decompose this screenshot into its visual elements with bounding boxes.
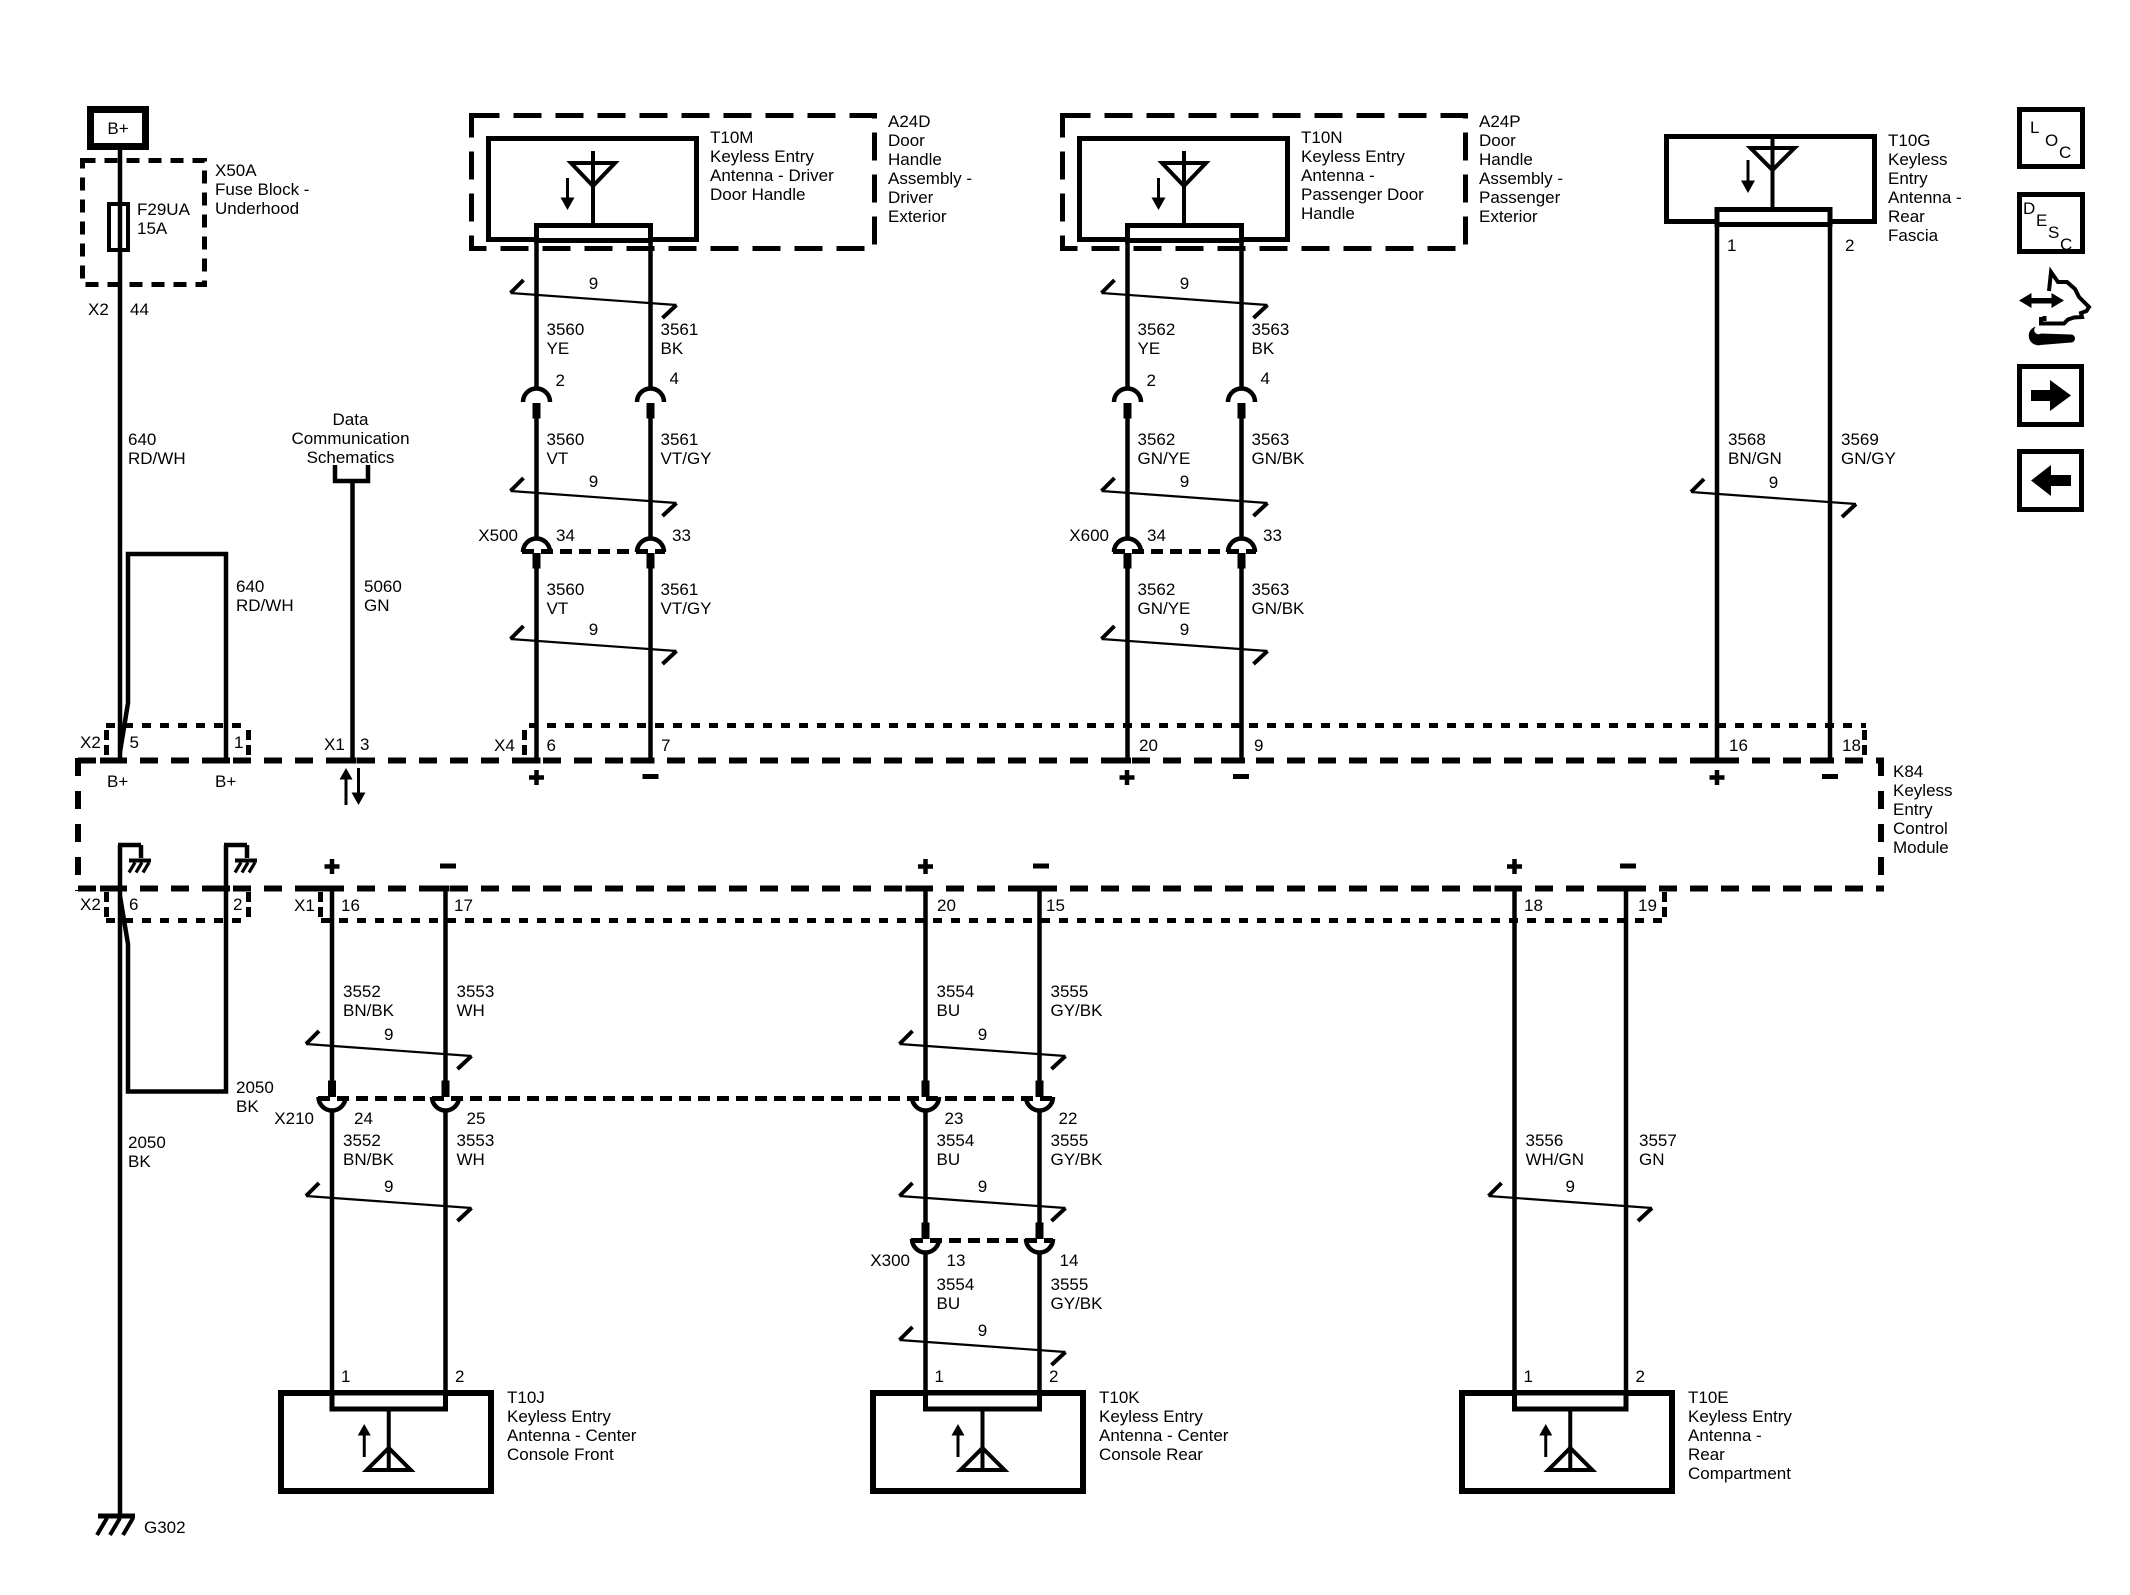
svg-text:Entry: Entry bbox=[1888, 169, 1928, 188]
power symbol B+ (battery feed) bbox=[91, 110, 146, 147]
svg-text:Rear: Rear bbox=[1888, 207, 1925, 226]
connector box of T10M bbox=[537, 226, 651, 241]
svg-text:18: 18 bbox=[1524, 896, 1543, 915]
label 3568 BN/GN bbox=[1728, 430, 1782, 468]
door handle assembly A24D (dashed box) bbox=[472, 116, 875, 249]
svg-text:3553: 3553 bbox=[457, 1131, 495, 1150]
svg-text:Handle: Handle bbox=[1479, 150, 1533, 169]
label 3560 YE bbox=[547, 320, 585, 358]
module K84 Keyless Entry Control Module (dashed box) bbox=[78, 758, 1884, 891]
svg-text:Door: Door bbox=[888, 131, 925, 150]
pin 2 label of T10K bbox=[1049, 1367, 1058, 1386]
twisted pair symbol 9 (middle) bbox=[1102, 472, 1268, 516]
twisted pair symbol 9 (rear compartment) bbox=[1489, 1177, 1653, 1221]
label 3555 GY/BK bbox=[1051, 982, 1104, 1020]
antenna symbol T10N bbox=[1152, 151, 1207, 223]
svg-text:Keyless: Keyless bbox=[1893, 781, 1953, 800]
svg-text:Passenger Door: Passenger Door bbox=[1301, 185, 1424, 204]
svg-text:B+: B+ bbox=[107, 119, 128, 138]
connector box of T10K bbox=[926, 1393, 1040, 1409]
svg-text:X2: X2 bbox=[80, 733, 101, 752]
svg-text:GN/GY: GN/GY bbox=[1841, 449, 1896, 468]
svg-text:BN/GN: BN/GN bbox=[1728, 449, 1782, 468]
svg-text:15: 15 bbox=[1046, 896, 1065, 915]
connector X210 pin 24 bbox=[274, 1081, 373, 1129]
svg-text:X1: X1 bbox=[324, 735, 345, 754]
pin 2 of X2 (ground) bbox=[206, 886, 242, 915]
svg-text:9: 9 bbox=[1769, 473, 1778, 492]
svg-text:3561: 3561 bbox=[661, 320, 699, 339]
svg-text:Keyless Entry: Keyless Entry bbox=[507, 1407, 611, 1426]
svg-text:Assembly -: Assembly - bbox=[888, 169, 972, 188]
label 3554 BU (lower) bbox=[937, 1275, 975, 1313]
label 3569 GN/GY bbox=[1841, 430, 1896, 468]
svg-text:3561: 3561 bbox=[661, 430, 699, 449]
icon door removal (double arrow + door outline) bbox=[2019, 272, 2089, 324]
svg-text:3562: 3562 bbox=[1138, 320, 1176, 339]
label T10M bbox=[710, 128, 834, 204]
svg-text:640: 640 bbox=[128, 430, 156, 449]
svg-text:VT/GY: VT/GY bbox=[661, 449, 712, 468]
svg-text:3555: 3555 bbox=[1051, 1275, 1089, 1294]
svg-text:9: 9 bbox=[384, 1177, 393, 1196]
pin 1 label of T10E bbox=[1524, 1367, 1533, 1386]
wire 3562 GN/YE (to X600) bbox=[1125, 417, 1130, 539]
wire 640 from B+ into fuse block bbox=[118, 150, 123, 204]
svg-text:S: S bbox=[2048, 223, 2059, 242]
svg-text:9: 9 bbox=[978, 1321, 987, 1340]
svg-text:GN/YE: GN/YE bbox=[1138, 449, 1191, 468]
label T10G bbox=[1888, 131, 1962, 245]
svg-text:F29UA: F29UA bbox=[137, 200, 191, 219]
svg-text:Underhood: Underhood bbox=[215, 199, 299, 218]
connector box of T10N bbox=[1128, 226, 1242, 241]
pin 9 of X4 bbox=[1221, 736, 1263, 764]
wire 3563 BK (pin to inline connector) bbox=[1239, 243, 1244, 389]
connector box of T10G bbox=[1717, 210, 1830, 225]
svg-text:3568: 3568 bbox=[1728, 430, 1766, 449]
svg-text:Fascia: Fascia bbox=[1888, 226, 1939, 245]
connector X300 pin 13 bbox=[870, 1223, 965, 1271]
internal ground at X2 pin 6 bbox=[118, 845, 151, 888]
label T10E bbox=[1688, 1388, 1792, 1483]
pin 20 of X4 bbox=[1107, 736, 1158, 764]
svg-text:7: 7 bbox=[661, 736, 670, 755]
wire 3554 BU (K84 X1-20 to X210) bbox=[923, 886, 928, 1081]
svg-text:GN: GN bbox=[1639, 1150, 1665, 1169]
svg-text:VT: VT bbox=[547, 449, 569, 468]
svg-text:34: 34 bbox=[1147, 526, 1166, 545]
antenna symbol T10J bbox=[358, 1411, 411, 1470]
svg-text:C: C bbox=[2059, 143, 2071, 162]
svg-text:Module: Module bbox=[1893, 838, 1949, 857]
icon DESC button bbox=[2020, 195, 2083, 255]
svg-text:BN/BK: BN/BK bbox=[343, 1150, 395, 1169]
twisted pair symbol 9 (console front, lower) bbox=[306, 1177, 472, 1221]
svg-text:BK: BK bbox=[661, 339, 684, 358]
pin 17 of X1 bbox=[426, 886, 473, 916]
svg-text:9: 9 bbox=[589, 472, 598, 491]
svg-text:3560: 3560 bbox=[547, 430, 585, 449]
svg-text:Compartment: Compartment bbox=[1688, 1464, 1791, 1483]
svg-text:Door Handle: Door Handle bbox=[710, 185, 805, 204]
label B+ (pin 5) bbox=[107, 772, 128, 791]
svg-text:2: 2 bbox=[1147, 371, 1156, 390]
antenna T10N box bbox=[1080, 139, 1288, 240]
connector box of T10E bbox=[1515, 1393, 1627, 1409]
svg-text:25: 25 bbox=[467, 1109, 486, 1128]
svg-text:9: 9 bbox=[1180, 620, 1189, 639]
svg-text:Passenger: Passenger bbox=[1479, 188, 1561, 207]
svg-text:Keyless: Keyless bbox=[1888, 150, 1948, 169]
svg-text:2: 2 bbox=[1636, 1367, 1645, 1386]
label 3555 GY/BK (middle) bbox=[1051, 1131, 1104, 1169]
antenna T10G box bbox=[1667, 137, 1875, 222]
svg-text:33: 33 bbox=[1263, 526, 1282, 545]
pin 6 of X2 (ground) bbox=[100, 886, 138, 915]
pin 16 of X4 bbox=[1697, 736, 1748, 764]
svg-text:13: 13 bbox=[947, 1251, 966, 1270]
twisted pair symbol 9 (upper) bbox=[511, 274, 677, 318]
svg-text:X300: X300 bbox=[870, 1251, 910, 1270]
wire 3569 GN/GY (T10G to K84) bbox=[1828, 227, 1833, 758]
svg-text:3563: 3563 bbox=[1252, 320, 1290, 339]
polarity marks X1 pins 16/17 bbox=[325, 859, 457, 874]
icon wrench bbox=[2029, 327, 2075, 346]
pin 18 of X1 bbox=[1495, 886, 1543, 916]
pin 2 label of T10J bbox=[455, 1367, 464, 1386]
svg-text:9: 9 bbox=[1566, 1177, 1575, 1196]
serial data arrows (bi-directional) bbox=[340, 768, 366, 805]
svg-text:GY/BK: GY/BK bbox=[1051, 1150, 1104, 1169]
label 3554 BU (middle) bbox=[937, 1131, 975, 1169]
svg-text:BK: BK bbox=[128, 1152, 151, 1171]
wire 3561 VT/GY (to X500) bbox=[648, 417, 653, 539]
label 3563 GN/BK bbox=[1252, 430, 1306, 468]
svg-text:3552: 3552 bbox=[343, 982, 381, 1001]
connector box of T10J bbox=[332, 1393, 446, 1409]
svg-text:BK: BK bbox=[1252, 339, 1275, 358]
svg-text:BN/BK: BN/BK bbox=[343, 1001, 395, 1020]
label A24P bbox=[1479, 112, 1563, 226]
pin 7 of X4 bbox=[631, 736, 671, 764]
svg-text:X2: X2 bbox=[80, 895, 101, 914]
door handle assembly A24P (dashed box) bbox=[1063, 116, 1466, 249]
svg-text:4: 4 bbox=[670, 369, 679, 388]
svg-text:9: 9 bbox=[978, 1025, 987, 1044]
svg-text:Entry: Entry bbox=[1893, 800, 1933, 819]
svg-text:X2: X2 bbox=[88, 300, 109, 319]
svg-text:16: 16 bbox=[1729, 736, 1748, 755]
label 3553 WH bbox=[457, 982, 495, 1020]
twisted pair symbol 9 (middle) bbox=[511, 472, 677, 516]
antenna symbol T10E bbox=[1539, 1411, 1592, 1470]
connector X210 pin 22 bbox=[1026, 1081, 1077, 1129]
svg-text:Antenna - Driver: Antenna - Driver bbox=[710, 166, 834, 185]
wire 3553 WH (X210 to T10J) bbox=[443, 1111, 448, 1392]
antenna symbol T10K bbox=[952, 1411, 1005, 1470]
label 3562 GN/YE (lower) bbox=[1138, 580, 1191, 618]
svg-text:T10M: T10M bbox=[710, 128, 753, 147]
connector X1 pin 3 (serial data) bbox=[324, 735, 369, 764]
antenna T10M box bbox=[489, 139, 697, 240]
label 3561 VT/GY bbox=[661, 430, 712, 468]
svg-text:Exterior: Exterior bbox=[888, 207, 947, 226]
svg-text:Exterior: Exterior bbox=[1479, 207, 1538, 226]
svg-text:640: 640 bbox=[236, 577, 264, 596]
connector X2 rail (bottom) bbox=[80, 892, 250, 921]
svg-text:Control: Control bbox=[1893, 819, 1948, 838]
twisted pair symbol 9 (lower) bbox=[511, 620, 677, 664]
label 3560 VT bbox=[547, 430, 585, 468]
svg-text:WH: WH bbox=[457, 1001, 485, 1020]
polarity marks X4 pins 6/7 bbox=[529, 770, 659, 785]
antenna T10E box bbox=[1462, 1393, 1672, 1491]
svg-text:20: 20 bbox=[937, 896, 956, 915]
svg-text:3560: 3560 bbox=[547, 320, 585, 339]
icon arrow right button bbox=[2020, 367, 2082, 425]
wire 640 RD/WH (fuse to K84 X2-5) bbox=[118, 250, 123, 758]
connector X4 rail (top) bbox=[494, 726, 1866, 758]
svg-text:Antenna -: Antenna - bbox=[1888, 188, 1962, 207]
connector X210 pin 25 bbox=[432, 1081, 485, 1129]
svg-text:9: 9 bbox=[589, 274, 598, 293]
twisted pair symbol 9 (console rear, middle) bbox=[900, 1177, 1066, 1221]
svg-text:2: 2 bbox=[1049, 1367, 1058, 1386]
svg-text:YE: YE bbox=[547, 339, 570, 358]
in-line connector pin 2 bbox=[523, 371, 565, 419]
svg-text:33: 33 bbox=[672, 526, 691, 545]
svg-text:RD/WH: RD/WH bbox=[128, 449, 186, 468]
pin 20 of X1 bbox=[906, 886, 956, 916]
svg-text:2050: 2050 bbox=[236, 1078, 274, 1097]
wire 3554 BU (X300 to T10K) bbox=[923, 1253, 928, 1392]
svg-text:34: 34 bbox=[556, 526, 575, 545]
wire 3560 VT (to X500) bbox=[534, 417, 539, 539]
svg-text:3554: 3554 bbox=[937, 982, 975, 1001]
svg-text:5: 5 bbox=[130, 733, 139, 752]
wire 3552 BN/BK (X210 to T10J) bbox=[330, 1111, 335, 1392]
wire 2050 BK (X2-6 to G302) bbox=[118, 886, 123, 1516]
label T10N bbox=[1301, 128, 1424, 223]
svg-text:GN: GN bbox=[364, 596, 390, 615]
pin 19 of X1 bbox=[1606, 886, 1657, 916]
svg-text:1: 1 bbox=[1524, 1367, 1533, 1386]
twisted pair symbol 9 (rear fascia pair) bbox=[1691, 473, 1856, 517]
pin 1 label of T10K bbox=[935, 1367, 944, 1386]
svg-text:3556: 3556 bbox=[1526, 1131, 1564, 1150]
label K84 Keyless Entry Control Module bbox=[1893, 762, 1953, 857]
svg-text:BU: BU bbox=[937, 1001, 961, 1020]
node Data Communication Schematics (off-page) bbox=[291, 410, 409, 481]
twisted pair symbol 9 (console rear, lower) bbox=[900, 1321, 1066, 1365]
svg-text:Rear: Rear bbox=[1688, 1445, 1725, 1464]
svg-text:Door: Door bbox=[1479, 131, 1516, 150]
svg-text:Console Front: Console Front bbox=[507, 1445, 614, 1464]
svg-text:6: 6 bbox=[129, 895, 138, 914]
svg-text:4: 4 bbox=[1261, 369, 1270, 388]
svg-text:Data: Data bbox=[333, 410, 369, 429]
wire 3555 GY/BK (X300 to T10K) bbox=[1037, 1253, 1042, 1392]
label 3557 GN bbox=[1639, 1131, 1677, 1169]
wire 3560 VT (X500 to K84) bbox=[534, 569, 539, 759]
wire 3553 WH (K84 X1-17 to X210) bbox=[443, 886, 448, 1081]
svg-text:3552: 3552 bbox=[343, 1131, 381, 1150]
label T10K bbox=[1099, 1388, 1229, 1464]
wire 3554 BU (X210 to X300) bbox=[923, 1111, 928, 1223]
svg-text:3554: 3554 bbox=[937, 1275, 975, 1294]
svg-text:15A: 15A bbox=[137, 219, 168, 238]
label 3553 WH (lower) bbox=[457, 1131, 495, 1169]
label X50A Fuse Block - Underhood bbox=[215, 161, 309, 218]
antenna symbol T10M bbox=[561, 151, 616, 223]
svg-text:3562: 3562 bbox=[1138, 430, 1176, 449]
pin 18 of X4 bbox=[1810, 736, 1861, 764]
svg-text:3569: 3569 bbox=[1841, 430, 1879, 449]
connector X210 dashed line bbox=[318, 1096, 1053, 1101]
svg-text:2050: 2050 bbox=[128, 1133, 166, 1152]
svg-text:VT/GY: VT/GY bbox=[661, 599, 712, 618]
wire 3563 GN/BK (X600 to K84) bbox=[1239, 569, 1244, 759]
svg-text:3555: 3555 bbox=[1051, 982, 1089, 1001]
svg-text:A24P: A24P bbox=[1479, 112, 1521, 131]
svg-text:22: 22 bbox=[1059, 1109, 1078, 1128]
wire 3562 GN/YE (X600 to K84) bbox=[1125, 569, 1130, 759]
connector X300 pin 14 bbox=[1026, 1223, 1078, 1271]
pin 16 of X1 bbox=[312, 886, 360, 916]
svg-text:9: 9 bbox=[1254, 736, 1263, 755]
pin 2 label of T10G bbox=[1845, 236, 1854, 255]
svg-text:3563: 3563 bbox=[1252, 430, 1290, 449]
svg-text:3553: 3553 bbox=[457, 982, 495, 1001]
label 2050 BK (branch) bbox=[236, 1078, 274, 1116]
svg-text:D: D bbox=[2023, 199, 2035, 218]
svg-text:T10K: T10K bbox=[1099, 1388, 1140, 1407]
svg-text:T10N: T10N bbox=[1301, 128, 1343, 147]
svg-text:1: 1 bbox=[341, 1367, 350, 1386]
label G302 bbox=[144, 1518, 186, 1537]
svg-text:X1: X1 bbox=[294, 896, 315, 915]
svg-text:Assembly -: Assembly - bbox=[1479, 169, 1563, 188]
svg-text:Console Rear: Console Rear bbox=[1099, 1445, 1203, 1464]
svg-text:23: 23 bbox=[945, 1109, 964, 1128]
polarity marks X1 pins 20/15 bbox=[918, 859, 1049, 874]
svg-text:Antenna -: Antenna - bbox=[1301, 166, 1375, 185]
svg-text:17: 17 bbox=[454, 896, 473, 915]
svg-text:1: 1 bbox=[1727, 236, 1736, 255]
label 3562 YE bbox=[1138, 320, 1176, 358]
connector X600 (in-line, dashed) bbox=[1069, 526, 1282, 569]
svg-text:GN/BK: GN/BK bbox=[1252, 599, 1306, 618]
wire 3556 WH/GN (K84 X1-18 to T10E) bbox=[1512, 886, 1517, 1392]
svg-text:A24D: A24D bbox=[888, 112, 931, 131]
label 5060 GN bbox=[364, 577, 402, 615]
label B+ (pin 1) bbox=[215, 772, 236, 791]
svg-text:YE: YE bbox=[1138, 339, 1161, 358]
svg-text:3557: 3557 bbox=[1639, 1131, 1677, 1150]
wire 5060 GN bbox=[350, 483, 355, 758]
wire 3555 GY/BK (K84 X1-15 to X210) bbox=[1037, 886, 1042, 1081]
svg-text:19: 19 bbox=[1638, 896, 1657, 915]
svg-text:3: 3 bbox=[360, 735, 369, 754]
wire 3552 BN/BK (K84 X1-16 to X210) bbox=[330, 886, 335, 1081]
svg-text:3563: 3563 bbox=[1252, 580, 1290, 599]
svg-text:GY/BK: GY/BK bbox=[1051, 1294, 1104, 1313]
label 2050 BK bbox=[128, 1133, 166, 1171]
svg-text:GY/BK: GY/BK bbox=[1051, 1001, 1104, 1020]
wire 3557 GN (K84 X1-19 to T10E) bbox=[1624, 886, 1629, 1392]
internal ground at X2 pin 2 bbox=[224, 845, 257, 888]
svg-text:WH/GN: WH/GN bbox=[1526, 1150, 1585, 1169]
label 3560 VT (lower) bbox=[547, 580, 585, 618]
svg-text:C: C bbox=[2060, 235, 2072, 254]
svg-text:Handle: Handle bbox=[888, 150, 942, 169]
twisted pair symbol 9 (console rear, upper) bbox=[900, 1025, 1066, 1069]
svg-text:B+: B+ bbox=[107, 772, 128, 791]
label 3563 BK bbox=[1252, 320, 1290, 358]
polarity marks X4 pins 16/18 bbox=[1710, 770, 1839, 785]
svg-text:X600: X600 bbox=[1069, 526, 1109, 545]
svg-text:3560: 3560 bbox=[547, 580, 585, 599]
svg-text:14: 14 bbox=[1060, 1251, 1079, 1270]
svg-text:X210: X210 bbox=[274, 1109, 314, 1128]
svg-text:RD/WH: RD/WH bbox=[236, 596, 294, 615]
svg-text:BU: BU bbox=[937, 1294, 961, 1313]
svg-text:9: 9 bbox=[978, 1177, 987, 1196]
svg-text:Keyless Entry: Keyless Entry bbox=[1301, 147, 1405, 166]
svg-text:3555: 3555 bbox=[1051, 1131, 1089, 1150]
svg-text:2: 2 bbox=[455, 1367, 464, 1386]
svg-text:T10G: T10G bbox=[1888, 131, 1931, 150]
in-line connector pin 4 bbox=[637, 369, 679, 419]
fuse F29UA 15A bbox=[109, 204, 128, 250]
svg-text:Driver: Driver bbox=[888, 188, 934, 207]
label 3556 WH/GN bbox=[1526, 1131, 1585, 1169]
svg-text:5060: 5060 bbox=[364, 577, 402, 596]
svg-text:L: L bbox=[2030, 118, 2039, 137]
connector X1 rail (bottom) bbox=[294, 892, 1667, 921]
label 3552 BN/BK (lower) bbox=[343, 1131, 395, 1169]
svg-text:1: 1 bbox=[935, 1367, 944, 1386]
svg-text:9: 9 bbox=[384, 1025, 393, 1044]
svg-text:2: 2 bbox=[1845, 236, 1854, 255]
antenna T10K box bbox=[873, 1393, 1083, 1491]
svg-text:3561: 3561 bbox=[661, 580, 699, 599]
svg-text:Handle: Handle bbox=[1301, 204, 1355, 223]
svg-text:Fuse Block -: Fuse Block - bbox=[215, 180, 309, 199]
svg-text:3554: 3554 bbox=[937, 1131, 975, 1150]
label 640 RD/WH bbox=[128, 430, 186, 468]
connector X500 (in-line, dashed) bbox=[478, 526, 691, 569]
antenna symbol T10G bbox=[1741, 137, 1795, 207]
svg-text:WH: WH bbox=[457, 1150, 485, 1169]
fuse block X50A - Underhood (dashed box) bbox=[83, 161, 205, 285]
svg-text:GN/BK: GN/BK bbox=[1252, 449, 1306, 468]
wire 3568 BN/GN (T10G to K84) bbox=[1715, 227, 1720, 758]
svg-text:2: 2 bbox=[233, 895, 242, 914]
label 3562 GN/YE bbox=[1138, 430, 1191, 468]
svg-text:G302: G302 bbox=[144, 1518, 186, 1537]
polarity marks X4 pins 20/9 bbox=[1120, 770, 1250, 785]
wire branch loop 2050 BK from X2-2 bbox=[120, 890, 226, 1092]
svg-text:9: 9 bbox=[589, 620, 598, 639]
svg-text:1: 1 bbox=[234, 733, 243, 752]
svg-text:Keyless Entry: Keyless Entry bbox=[1688, 1407, 1792, 1426]
wire 3555 GY/BK (X210 to X300) bbox=[1037, 1111, 1042, 1223]
svg-text:X4: X4 bbox=[494, 736, 515, 755]
svg-text:3562: 3562 bbox=[1138, 580, 1176, 599]
pin 15 of X1 bbox=[1020, 886, 1065, 916]
